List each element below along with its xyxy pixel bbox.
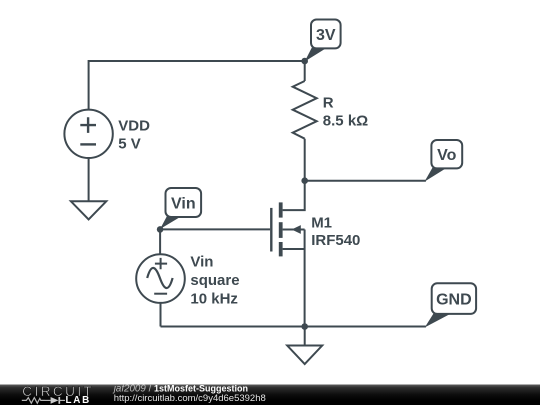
node label Vo tail xyxy=(425,168,448,182)
wire source bottom xyxy=(160,303,162,327)
source V2 minus sign xyxy=(154,293,167,295)
wire drain of M1 xyxy=(283,181,305,210)
mosfet M1 body channel bar xyxy=(279,222,283,238)
node label 3V tail xyxy=(305,48,327,62)
wire VDD bottom to ground xyxy=(88,158,90,201)
junction dot node Vo xyxy=(301,177,308,184)
svg-text:Vin: Vin xyxy=(171,195,196,212)
ground symbol VDD xyxy=(71,201,106,219)
wire gate of M1 xyxy=(160,228,270,230)
svg-text:8.5 kΩ: 8.5 kΩ xyxy=(323,113,368,130)
svg-text:square: square xyxy=(190,272,239,289)
wire top rail from VDD to 3V node xyxy=(89,61,305,110)
junction dot node Vin xyxy=(157,226,164,233)
mosfet M1 source channel bar xyxy=(279,242,283,256)
mosfet M1 source lead xyxy=(283,248,305,250)
mosfet M1 gate bar xyxy=(270,208,272,252)
voltage source VDD plus sign xyxy=(80,117,96,133)
node label GND tail xyxy=(425,314,451,328)
wire bottom junction to ground xyxy=(304,327,306,346)
node label Vin tail xyxy=(160,216,182,229)
voltage source VDD circle xyxy=(64,110,112,158)
svg-text:M1: M1 xyxy=(311,214,332,231)
source V2 sine wave xyxy=(147,268,172,288)
node label GND box xyxy=(432,283,476,314)
wire resistor top xyxy=(304,61,306,81)
wire Vo horizontal xyxy=(305,180,426,182)
svg-text:R: R xyxy=(323,95,334,112)
svg-text:Vin: Vin xyxy=(190,253,213,270)
svg-text:LAB: LAB xyxy=(66,395,92,405)
node label 3V box xyxy=(311,20,341,49)
logo diode symbol xyxy=(45,399,51,401)
wire resistor bottom to Vo junction xyxy=(304,139,306,181)
node label Vin box xyxy=(166,188,202,217)
source V2 circle xyxy=(136,254,185,303)
wire Vin node to source top xyxy=(159,229,161,254)
svg-text:GND: GND xyxy=(436,291,472,308)
svg-text:VDD: VDD xyxy=(118,118,150,135)
svg-text:3V: 3V xyxy=(316,27,336,44)
wire source/body vertical to bottom rail xyxy=(304,230,306,327)
svg-text:5 V: 5 V xyxy=(118,135,141,152)
ground symbol main xyxy=(287,346,322,365)
svg-text:IRF540: IRF540 xyxy=(311,232,360,249)
resistor R zigzag xyxy=(293,81,317,139)
mosfet M1 drain channel bar xyxy=(279,202,283,217)
wire bottom rail xyxy=(161,326,426,328)
svg-text:10 kHz: 10 kHz xyxy=(190,290,238,307)
voltage source VDD minus sign xyxy=(80,143,96,145)
node label Vo box xyxy=(431,140,462,168)
footer branding bar xyxy=(0,384,540,405)
svg-text:Vo: Vo xyxy=(437,147,456,164)
junction node 3V dot xyxy=(301,58,308,65)
mosfet M1 body lead with arrow xyxy=(283,229,305,231)
logo resistor zigzag xyxy=(22,398,45,404)
junction dot bottom node xyxy=(301,323,308,330)
source V2 plus sign xyxy=(155,258,167,269)
svg-text:http://circuitlab.com/c9y4d6e5: http://circuitlab.com/c9y4d6e5392h8 xyxy=(114,393,266,404)
